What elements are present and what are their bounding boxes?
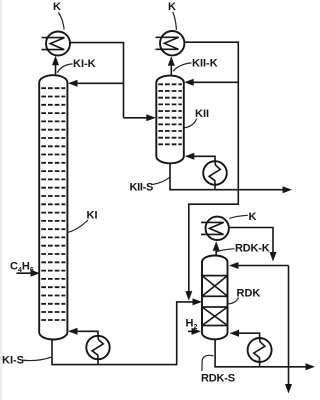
svg-text:K: K (168, 1, 176, 13)
arrow left into KII top (184, 79, 194, 86)
wire RDK reflux header (232, 265, 289, 267)
leader KI to column (67, 220, 88, 233)
leader RDK-S to pipe (202, 355, 214, 371)
arrow up into condenser 1 (52, 56, 59, 66)
leader KII to column (184, 119, 196, 128)
leader KII-K to vapor line (173, 63, 191, 71)
RDK packing box 2 (202, 307, 228, 326)
leader K to condenser 2 (173, 12, 177, 30)
arrow left into KII bottom (185, 153, 195, 160)
wire condenser1 outlet right and down (70, 43, 124, 118)
wire RDK vapor line (215, 244, 217, 256)
condenser K of RDK (circle + coil) (201, 217, 229, 240)
svg-text:RDK: RDK (237, 288, 261, 300)
column KII shell (156, 76, 184, 164)
wire C4H6 feed arrow (17, 272, 37, 274)
leader KI-S to pipe (21, 357, 52, 361)
leader K to condenser 1 (58, 13, 64, 30)
column KI trays (41, 88, 65, 320)
arrow right into KII (146, 114, 156, 121)
wire RDK reboiler return (233, 333, 260, 338)
wire KII reflux branch (187, 81, 238, 83)
svg-text:KI: KI (87, 210, 98, 222)
arrow down onto RDK reflux header (270, 252, 277, 262)
wire RDK bottoms RDK-S (215, 339, 312, 367)
condenser K of KII (circle + coil) (156, 31, 185, 55)
arrow up into condenser 3 (213, 241, 220, 251)
arrow left into RDK bottom (230, 330, 240, 337)
column RDK shell (202, 256, 228, 340)
arrow right KII-S product (283, 186, 293, 193)
wire KII reboiler return (188, 156, 215, 161)
wire KI bottoms KI-S to RDK riser (52, 302, 199, 365)
leader K to condenser 3 (229, 215, 248, 218)
wire KI reboiler return (71, 331, 98, 336)
reboiler of KII (circle + zigzag) (203, 161, 227, 185)
wire KI vapor line to condenser (55, 58, 57, 76)
wire reboiler1 bottom stub (97, 359, 99, 365)
svg-text:K: K (249, 211, 257, 223)
wire RDK distillate down to product arrow (288, 266, 290, 391)
leader KII-S to pipe (152, 177, 170, 184)
arrow right into KI (31, 270, 41, 277)
wire H2 feed arrow (188, 330, 197, 332)
svg-text:K: K (53, 1, 61, 13)
svg-text:KII-S: KII-S (130, 182, 154, 194)
svg-text:KII: KII (195, 108, 209, 120)
column KI shell (39, 75, 67, 339)
arrow right RDK-S product (306, 363, 316, 370)
svg-text:RDK-K: RDK-K (235, 243, 270, 255)
arrow left into RDK top (229, 262, 239, 269)
wire reboiler3 bottom stub (259, 362, 261, 367)
wire KI reflux branch (71, 82, 124, 84)
arrow up into condenser 2 (168, 56, 175, 65)
wire reboiler2 bottom stub (214, 185, 216, 190)
wire condenser2 outlet right and down (185, 42, 239, 298)
svg-text:KI-K: KI-K (73, 58, 96, 70)
RDK packing box 1 (202, 276, 228, 297)
leader KI-K to vapor line (57, 64, 72, 73)
reboiler of KI (circle + zigzag) (86, 336, 109, 359)
arrow down RDK distillate product (285, 384, 292, 394)
wire feed to KII (124, 117, 153, 119)
wire condenser3 outlet right and down (229, 228, 273, 259)
leader RDK-K to vapor line (217, 249, 235, 252)
arrow right H2 into RDK (192, 328, 202, 335)
column KII trays (158, 84, 182, 144)
wire KII bottoms KII-S (170, 164, 289, 190)
arrow left into KI top (68, 80, 78, 87)
svg-text:RDK-S: RDK-S (201, 373, 235, 385)
reboiler of RDK (circle + zigzag) (248, 338, 272, 362)
condenser K of KI (circle + coil) (42, 32, 71, 56)
svg-text:KI-S: KI-S (2, 355, 24, 367)
arrow right into RDK mid feed (193, 298, 203, 305)
svg-text:KII-K: KII-K (192, 58, 218, 70)
arrow down onto RDK feed header (185, 291, 192, 301)
arrow left into KI bottom (68, 328, 78, 335)
leader RDK to column (228, 298, 239, 304)
faint scan edge (0, 0, 2, 400)
wire KII vapor line (170, 59, 172, 76)
